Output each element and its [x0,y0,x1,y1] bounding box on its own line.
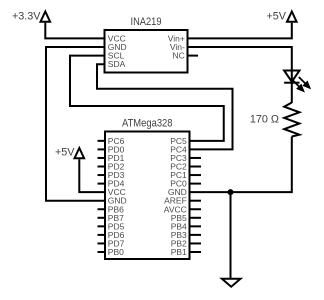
IC U2 ATMega328 box [105,132,190,260]
pin PB3 (right 11) [171,230,201,240]
pin AVCC (right 8) [164,204,201,214]
svg-text:SDA: SDA [108,59,126,69]
pin PD5 (left 10) [98,221,125,231]
pin NC stub [188,55,199,57]
pin PC3 (right 2) [170,153,201,163]
wire +3.3V to INA219 VCC [45,23,104,39]
pin PC6 (left 0) [98,136,125,146]
pin PB1 (right 13) [171,247,201,257]
IC U1 INA219 box [105,30,188,73]
svg-text:+3.3V: +3.3V [12,11,41,23]
pin PB0 (left 13) [98,247,125,257]
pin PB6 (left 8) [98,204,125,214]
power +5V (left) [55,147,84,159]
pin PC5 (right 0) [170,136,187,146]
pin PC0 (right 5) [170,179,201,189]
svg-text:PB1: PB1 [171,247,187,257]
svg-text:+5V: +5V [266,11,286,23]
pin GND (left 7) [108,196,127,206]
svg-text:PB0: PB0 [108,247,124,257]
svg-text:ATMega328: ATMega328 [122,118,173,130]
resistor R1 170 ohm [284,103,299,137]
svg-text:+5V: +5V [55,147,75,159]
pin PD0 (left 1) [98,144,125,154]
junction dot [228,189,234,195]
pin PD2 (left 3) [98,162,125,172]
wire junction to ground symbol [230,192,232,278]
pin PC1 (right 4) [170,170,201,180]
pin GND (right 6) [168,187,187,197]
wire INA219 GND to ATMega328 GND [46,47,105,201]
wire LED cathode to resistor [291,83,293,103]
pin PB2 (right 12) [171,238,201,248]
pin PD1 (left 2) [98,153,125,163]
wire INA219 SCL to ATMega328 PC5 [70,56,224,141]
pin PD7 (left 12) [98,238,125,248]
pin PC4 (right 1) [170,144,187,154]
pin PD4 (left 5) [98,179,125,189]
wire INA219 SDA to ATMega328 PC4 [97,64,233,149]
ground symbol [222,279,241,287]
wire resistor to GND rail [190,137,292,193]
pin VCC (left 6) [108,187,126,197]
pin PB4 (right 10) [171,221,201,231]
svg-text:NC: NC [173,51,185,61]
svg-text:170 Ω: 170 Ω [250,114,279,126]
LED D1 [284,71,309,91]
pin PD6 (left 11) [98,230,125,240]
pin AREF (right 7) [164,196,201,206]
wire INA219 Vin- to LED anode [188,47,292,83]
wire +5V to ATMega328 VCC [79,159,105,192]
pin PB7 (left 9) [98,213,125,223]
pin PB5 (right 9) [171,213,201,223]
pin PD3 (left 4) [98,170,125,180]
power +5V (top right) [266,11,296,23]
power +3.3V [12,11,50,23]
svg-text:INA219: INA219 [131,16,162,28]
wire +5V to INA219 Vin+ [188,23,292,39]
pin PC2 (right 3) [170,162,201,172]
